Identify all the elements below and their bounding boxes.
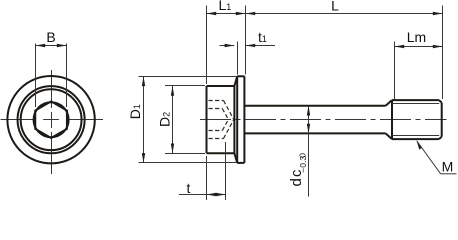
D2 dimension line <box>172 86 174 153</box>
label D1 (rotated) <box>127 104 143 119</box>
L arrow left <box>246 12 256 15</box>
svg-text:M: M <box>442 158 454 174</box>
t extension line left (head face down) <box>206 156 208 200</box>
cone slant top <box>234 76 237 86</box>
head circle D2 <box>18 86 85 153</box>
D2 arrow top <box>171 86 174 96</box>
end chamfer bottom <box>439 137 442 139</box>
hex socket hexagon <box>35 101 67 138</box>
Lm arrow right <box>433 45 443 48</box>
B arrow right <box>57 44 67 47</box>
B arrow left <box>36 44 46 47</box>
L1 dimension line <box>207 13 246 15</box>
end face <box>441 103 443 137</box>
t arrow left <box>207 193 217 196</box>
hidden cone slant from outer top <box>224 101 234 120</box>
t1 right arrow <box>246 44 256 47</box>
svg-text:t: t <box>187 180 191 196</box>
D1 arrow top <box>142 76 145 86</box>
thread OD top <box>392 99 439 101</box>
Lm dimension line <box>395 46 443 48</box>
end chamfer top <box>439 100 442 102</box>
svg-text:0: 0 <box>298 153 308 158</box>
thread minor dia top <box>392 103 439 105</box>
D2 arrow bottom <box>171 144 174 154</box>
label D2 (rotated) <box>157 112 173 127</box>
D1 dimension line <box>143 77 145 163</box>
L1 left extension line (head face) <box>206 6 208 85</box>
shaft bottom edge <box>244 132 385 134</box>
washer outer circle D1 <box>7 76 94 163</box>
t arrow right <box>216 193 226 196</box>
thread minor dia bottom <box>392 135 439 137</box>
D2 extension line top <box>165 85 205 87</box>
M leader tail <box>441 173 457 175</box>
svg-text:B: B <box>46 29 55 45</box>
shaft top edge <box>244 105 385 107</box>
D1 extension line bottom <box>139 162 237 164</box>
L dimension line <box>246 13 443 15</box>
t1 left arrow <box>225 44 235 47</box>
hidden socket line inner top <box>209 108 223 110</box>
Lm arrow left <box>395 45 405 48</box>
D1 arrow bottom <box>142 153 145 163</box>
t dimension line <box>179 194 226 196</box>
thread OD bottom <box>392 138 439 140</box>
t1 dimension right line with tail <box>246 45 276 47</box>
head/cone junction edge <box>233 86 235 153</box>
dc dimension line vertical <box>308 106 310 197</box>
head left face <box>206 86 208 153</box>
vertical centerline of front view <box>51 70 53 174</box>
washer left face <box>236 76 238 163</box>
t1 extension line left (washer left face up) <box>237 42 239 75</box>
head face chamfer circle <box>21 89 82 150</box>
L1 arrow right <box>236 12 246 15</box>
L right extension line <box>442 6 444 100</box>
hidden socket line inner bottom <box>209 130 223 132</box>
t1 dimension left arrow line <box>220 45 235 47</box>
t extension line right (socket depth) <box>225 142 227 200</box>
thread/neck junction edge <box>391 100 393 139</box>
B extension line left <box>35 44 37 108</box>
hidden slant from inner top <box>222 109 228 120</box>
washer right face <box>243 76 245 163</box>
Lm left extension line <box>394 42 396 100</box>
head bottom edge <box>207 152 235 154</box>
hidden slant from inner bottom <box>222 120 228 131</box>
horizontal centerline of front view <box>1 119 104 121</box>
L arrow right <box>433 12 443 15</box>
L1 arrow left <box>207 12 217 15</box>
D1 extension line top <box>139 76 237 78</box>
svg-text:L1: L1 <box>219 0 232 13</box>
M leader line <box>417 141 441 174</box>
B dimension line <box>36 45 67 47</box>
socket chamfer circle <box>34 102 69 137</box>
label dc with tolerance (rotated) <box>288 153 308 187</box>
washer bottom edge <box>237 162 244 164</box>
hidden cone slant from outer bottom <box>224 120 234 139</box>
hidden socket line outer bottom <box>209 138 224 140</box>
neck slant bottom <box>386 133 392 139</box>
dc arrow down <box>307 124 310 134</box>
hidden socket line outer top <box>209 100 224 102</box>
washer top edge <box>237 75 244 77</box>
svg-text:L: L <box>331 0 339 13</box>
main centerline (axis) <box>200 119 447 121</box>
cone slant bottom <box>234 153 237 163</box>
svg-text:Lm: Lm <box>407 29 426 45</box>
B extension line right <box>66 44 68 108</box>
D2 extension line bottom <box>165 153 205 155</box>
neck slant top <box>386 100 392 106</box>
L1/L shared extension line (washer right) <box>245 6 247 75</box>
dc arrow up <box>307 106 310 116</box>
head top edge <box>207 85 235 87</box>
M leader arrow <box>416 140 422 149</box>
